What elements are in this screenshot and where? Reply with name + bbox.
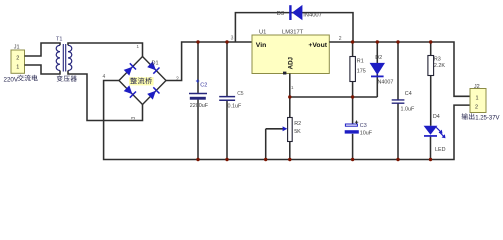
bridge D1 diode top-left — [124, 67, 133, 76]
wire D3 branch Vin to Vout top rail — [235, 13, 353, 42]
svg-text:D2: D2 — [375, 55, 382, 61]
svg-text:C4: C4 — [405, 91, 412, 97]
LED D4 — [424, 126, 438, 137]
wire C3 bottom to ground rail — [352, 134, 354, 160]
junction Vout-R1-D3 — [351, 40, 354, 43]
wire T1 secondary bottom to bridge pin 3 (bottom corner) — [68, 71, 143, 121]
capacitor C5 plates — [219, 97, 235, 101]
svg-text:J2: J2 — [474, 84, 480, 90]
diode D3 — [289, 5, 302, 20]
R2 wiper arrow — [266, 126, 288, 131]
svg-text:1.0uF: 1.0uF — [401, 106, 415, 112]
junction gnd-C2 — [196, 158, 199, 161]
svg-text:2200uF: 2200uF — [190, 103, 209, 109]
wire C5 top — [226, 42, 228, 96]
wire U1 Vout rail to J2 pin 1 — [329, 42, 470, 96]
wire Vout to R3 top — [430, 42, 432, 56]
junction Vin-C2 — [196, 40, 199, 43]
junction gnd-C4 — [396, 158, 399, 161]
svg-text:1: 1 — [476, 95, 479, 101]
junction Vout-D2 — [376, 40, 379, 43]
wire R2 wiper to ground rail — [265, 129, 267, 160]
svg-text:Vin: Vin — [256, 42, 266, 49]
svg-text:D4: D4 — [433, 114, 440, 120]
svg-text:3: 3 — [231, 35, 234, 41]
wire bridge pin 2 to U1 Vin — [166, 42, 252, 81]
U1 pin 1 mark — [283, 72, 286, 75]
C3 polarity plus — [355, 121, 358, 124]
junction gnd-C3 — [351, 158, 354, 161]
svg-text:10uF: 10uF — [360, 130, 373, 136]
wire R1 bottom to ADJ net and C3 — [352, 82, 354, 125]
junction ADJ-R1-C3 — [351, 95, 354, 98]
transformer T1 primary winding — [56, 45, 60, 70]
svg-text:5K: 5K — [294, 129, 301, 135]
svg-text:D3: D3 — [277, 11, 284, 17]
svg-text:2: 2 — [176, 77, 179, 83]
junction Vout-C4 — [396, 40, 399, 43]
wire C4 bottom — [397, 104, 399, 160]
potentiometer R2 body — [288, 118, 293, 142]
regulator U1 LM317T body — [252, 35, 329, 74]
svg-text:D1: D1 — [152, 61, 159, 67]
wire ADJ net horizontal — [290, 96, 378, 98]
svg-text:C2: C2 — [200, 83, 207, 89]
svg-text:C3: C3 — [360, 123, 367, 129]
label 220V AC input (220V交流电) — [4, 75, 38, 84]
junction gnd-C5 — [225, 158, 228, 161]
wire C5 bottom — [226, 100, 228, 159]
svg-text:+Vout: +Vout — [308, 42, 327, 49]
label output 1.25-37V (输出1.25-37V) — [462, 113, 500, 121]
junction gnd-D4 — [429, 158, 432, 161]
junction ADJ-R2 — [288, 95, 291, 98]
svg-text:LM317T: LM317T — [282, 29, 304, 35]
transformer T1 secondary winding — [68, 45, 72, 70]
svg-text:2.2K: 2.2K — [434, 63, 445, 69]
svg-text:175: 175 — [357, 69, 366, 75]
svg-text:2: 2 — [475, 104, 478, 110]
label rectifier bridge (整流桥) — [129, 77, 154, 85]
junction gnd-R2 — [288, 158, 291, 161]
svg-text:220V: 220V — [4, 76, 19, 83]
svg-text:J1: J1 — [14, 45, 20, 51]
wire T1 secondary top to bridge pin 1 (top corner) — [68, 43, 143, 57]
svg-text:2: 2 — [339, 36, 342, 42]
connector J2 — [470, 89, 486, 113]
junction Vin-C5 — [225, 40, 228, 43]
wire C2 top — [197, 42, 199, 93]
wire C2 bottom — [197, 100, 199, 160]
svg-text:3: 3 — [131, 117, 137, 120]
wire D4 to ground rail — [430, 137, 432, 160]
wire J1 pin 2 to T1 primary top — [25, 43, 61, 56]
resistor R3 — [428, 56, 434, 76]
diode D2 — [370, 63, 385, 77]
C2 polarity plus — [196, 79, 199, 82]
svg-text:4: 4 — [103, 74, 106, 80]
wire bridge pin 4 to ground rail and ground rail to J2 pin 2 — [104, 81, 470, 160]
svg-text:U1: U1 — [259, 29, 266, 35]
wire U1 ADJ pin to R2 top — [289, 74, 291, 118]
resistor R1 — [350, 57, 356, 82]
junction gnd-R2-wiper — [264, 158, 267, 161]
svg-text:ADJ: ADJ — [287, 56, 294, 69]
svg-text:C5: C5 — [237, 91, 244, 97]
svg-text:R2: R2 — [294, 121, 301, 127]
D4 light arrows — [436, 127, 445, 138]
wire R3 bottom to D4 — [430, 76, 432, 126]
capacitor C3 plates — [345, 124, 359, 134]
bridge D1 diode bottom-left — [124, 85, 133, 94]
wire J1 pin 1 to T1 primary bottom — [25, 65, 61, 74]
bridge D1 diode bottom-right — [147, 91, 156, 100]
transformer T1 core — [63, 44, 65, 72]
svg-text:0.1uF: 0.1uF — [228, 103, 242, 109]
svg-text:R1: R1 — [357, 59, 364, 65]
label transformer (变压器) — [57, 75, 77, 81]
svg-text:1: 1 — [16, 64, 19, 70]
wire Vout to D2 to ADJ net — [376, 42, 378, 97]
wire R2 bottom to ground rail — [289, 142, 291, 160]
svg-text:1.25-37V: 1.25-37V — [475, 116, 499, 122]
svg-text:2: 2 — [16, 56, 19, 62]
connector J1 — [11, 50, 25, 73]
wire Vout to R1 top — [352, 42, 354, 57]
svg-text:IN4007: IN4007 — [303, 12, 322, 18]
svg-text:R3: R3 — [434, 57, 441, 63]
svg-text:LED: LED — [435, 147, 446, 153]
svg-text:T1: T1 — [56, 37, 62, 43]
junction Vout-R3 — [429, 40, 432, 43]
bridge D1 diode top-right — [147, 61, 156, 70]
svg-text:IN4007: IN4007 — [376, 79, 393, 85]
capacitor C4 plates — [392, 100, 405, 103]
wire C4 top — [397, 42, 399, 100]
bridge rectifier D1 body — [119, 57, 166, 105]
capacitor C2 plates — [189, 94, 207, 100]
